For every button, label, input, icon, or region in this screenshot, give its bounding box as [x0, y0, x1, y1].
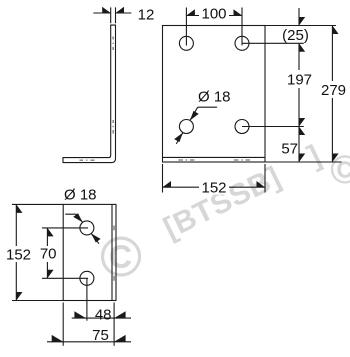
bottom view inner edge line [111, 204, 113, 300]
side view centerline tick lower hole [112, 120, 114, 134]
dim 48 left arrow [74, 311, 86, 318]
dim 48 line [72, 317, 131, 319]
dim 75 right arrow [114, 335, 126, 342]
centerline top-right hole [241, 8, 243, 46]
dim 279 top arrow [332, 26, 338, 35]
dia bottom arrow upper [73, 213, 82, 222]
dim 12 extension lines [111, 7, 116, 23]
svg-text:75: 75 [92, 327, 109, 344]
dim 152 left line [15, 204, 17, 300]
bottom view right edge ticks [113, 226, 115, 281]
bottom view vertical centerline [86, 278, 88, 320]
bottom view hole 1 [80, 221, 94, 235]
front view plate outline [163, 26, 266, 163]
bottom view plate outline [63, 204, 116, 300]
dim 70 line [46, 228, 48, 278]
side view flange centerline tick [80, 159, 95, 161]
dia leader front: shoulder and line [190, 107, 217, 120]
front view bend centerline ticks [178, 159, 250, 161]
svg-text:152: 152 [201, 180, 226, 197]
dim 100 left arrow [186, 9, 195, 15]
label 152 bottom [200, 180, 228, 197]
bottom view hole1 horizontal centerline [42, 227, 88, 229]
dim 57 top arrow [299, 127, 305, 136]
watermark fragment top right [303, 139, 326, 173]
dim 152 bottom line [163, 186, 266, 188]
dia bottom arrow lower [91, 234, 100, 243]
hole bottom-left [179, 120, 193, 134]
centerline top-left hole [185, 8, 187, 46]
dim 48/75 right ext line [113, 303, 115, 346]
watermark BTSSB text [159, 160, 287, 245]
dim 12 right arrow [116, 7, 125, 13]
dim 25 top arrow [299, 17, 305, 26]
hole top-left [179, 36, 193, 50]
dim 48 right arrow [114, 311, 126, 318]
dim 152 left extension lines [12, 204, 63, 300]
dim 12 dimension line [93, 12, 131, 14]
svg-text:Ø 18: Ø 18 [198, 89, 231, 106]
dim 75 left arrow [52, 335, 64, 342]
dim 197 line [298, 43, 300, 126]
hole bottom-right [235, 120, 249, 134]
svg-text:197: 197 [287, 72, 312, 89]
svg-text:©: © [100, 225, 142, 289]
svg-text:100: 100 [201, 6, 226, 23]
dim 70 top arrow [47, 228, 53, 237]
dim 279 line [331, 26, 333, 163]
extension line top hole right [242, 42, 304, 44]
dim 70 bottom arrow [47, 270, 53, 279]
extension line bottom hole right [242, 126, 304, 128]
svg-text:57: 57 [281, 141, 298, 158]
dia front arrow upper [190, 111, 199, 121]
dim 25 upper tail [298, 8, 300, 26]
svg-text:12: 12 [138, 6, 155, 23]
bottom view hole2 horizontal centerline [42, 277, 88, 279]
dim 100 right arrow [234, 9, 243, 15]
label 100 [201, 6, 226, 23]
dim 197 bottom arrow [299, 118, 305, 127]
dim 152 bottom left arrow [163, 181, 172, 187]
svg-text:(25): (25) [282, 27, 309, 44]
side view centerline tick upper hole [112, 37, 114, 51]
dim 197 top arrow [299, 43, 305, 52]
extension line top edge right [265, 25, 336, 27]
svg-text:152: 152 [6, 246, 31, 263]
extension line bottom edge right [265, 161, 342, 163]
front view bend line [163, 156, 266, 158]
dia leader front tail [176, 133, 183, 144]
dim 12 left arrow [102, 7, 111, 13]
dim 57 line [298, 127, 300, 163]
dim 279 bottom arrow [332, 154, 338, 163]
svg-text:48: 48 [95, 307, 112, 324]
svg-text:279: 279 [321, 82, 346, 99]
dim 152 left top arrow [16, 204, 22, 213]
svg-text:70: 70 [40, 246, 57, 263]
hole top-right [235, 36, 249, 50]
dim 57 bottom arrow [299, 154, 305, 163]
dim 75 left ext line (rect left edge ext) [62, 303, 64, 346]
bottom view hole 2 [80, 271, 94, 285]
dim 152 left bottom arrow [16, 292, 22, 301]
dim 100 line [186, 15, 242, 17]
dim 152 bottom extension lines [163, 164, 266, 193]
svg-text:Ø 18: Ø 18 [64, 187, 97, 204]
dia leader bottom: shoulder and line [65, 214, 82, 222]
dim 75 line [47, 341, 131, 343]
side view L-profile outline [63, 25, 116, 163]
dia front arrow lower [174, 133, 183, 143]
dia leader bottom tail [91, 234, 99, 244]
dim 152 bottom right arrow [257, 181, 266, 187]
